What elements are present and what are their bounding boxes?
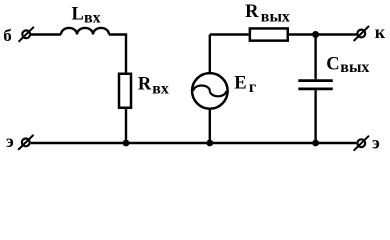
wire inductor to corner xyxy=(109,35,126,73)
svg-text:L: L xyxy=(72,4,84,24)
bottom rail wire xyxy=(31,142,357,144)
capacitor C_вых bottom plate xyxy=(298,88,333,91)
wire R_вых to terminal к xyxy=(289,33,357,35)
wire E_г corner to R_вых xyxy=(210,33,249,35)
sine wave inside E_г xyxy=(193,86,226,97)
svg-text:э: э xyxy=(6,131,14,151)
inductor L_вх xyxy=(61,28,109,35)
source E_г circle xyxy=(192,73,228,109)
wire node to capacitor top plate xyxy=(314,35,316,80)
resistor R_вх xyxy=(119,74,131,108)
capacitor C_вых top plate xyxy=(298,79,333,82)
svg-text:г: г xyxy=(249,79,256,96)
wire R_вх to bottom rail xyxy=(125,109,127,143)
junction dot C_вых / top wire xyxy=(312,31,319,38)
svg-text:C: C xyxy=(326,54,339,74)
svg-text:вых: вых xyxy=(261,8,290,25)
wire capacitor to rail xyxy=(314,90,316,143)
terminal э right (emitter) xyxy=(354,136,369,151)
svg-text:вых: вых xyxy=(340,59,369,76)
terminal б (input base) xyxy=(19,27,34,42)
resistor R_вых xyxy=(250,28,288,40)
svg-text:к: к xyxy=(375,22,386,42)
svg-text:E: E xyxy=(234,73,246,93)
svg-text:э: э xyxy=(372,132,380,152)
terminal э left (emitter) xyxy=(18,135,33,150)
svg-text:R: R xyxy=(245,2,259,22)
junction dot E_г / rail xyxy=(206,140,213,147)
wire terminal б to inductor xyxy=(31,33,61,35)
svg-text:вх: вх xyxy=(84,10,101,27)
terminal к (output collector) xyxy=(354,26,369,41)
svg-text:R: R xyxy=(138,74,152,94)
svg-text:б: б xyxy=(3,26,12,45)
wire E_г bottom to rail xyxy=(209,109,211,143)
junction dot C_вых / rail xyxy=(312,140,319,147)
wire corner to E_г top xyxy=(209,35,211,73)
svg-text:вх: вх xyxy=(152,80,169,97)
junction dot R_вх / rail xyxy=(123,140,130,147)
